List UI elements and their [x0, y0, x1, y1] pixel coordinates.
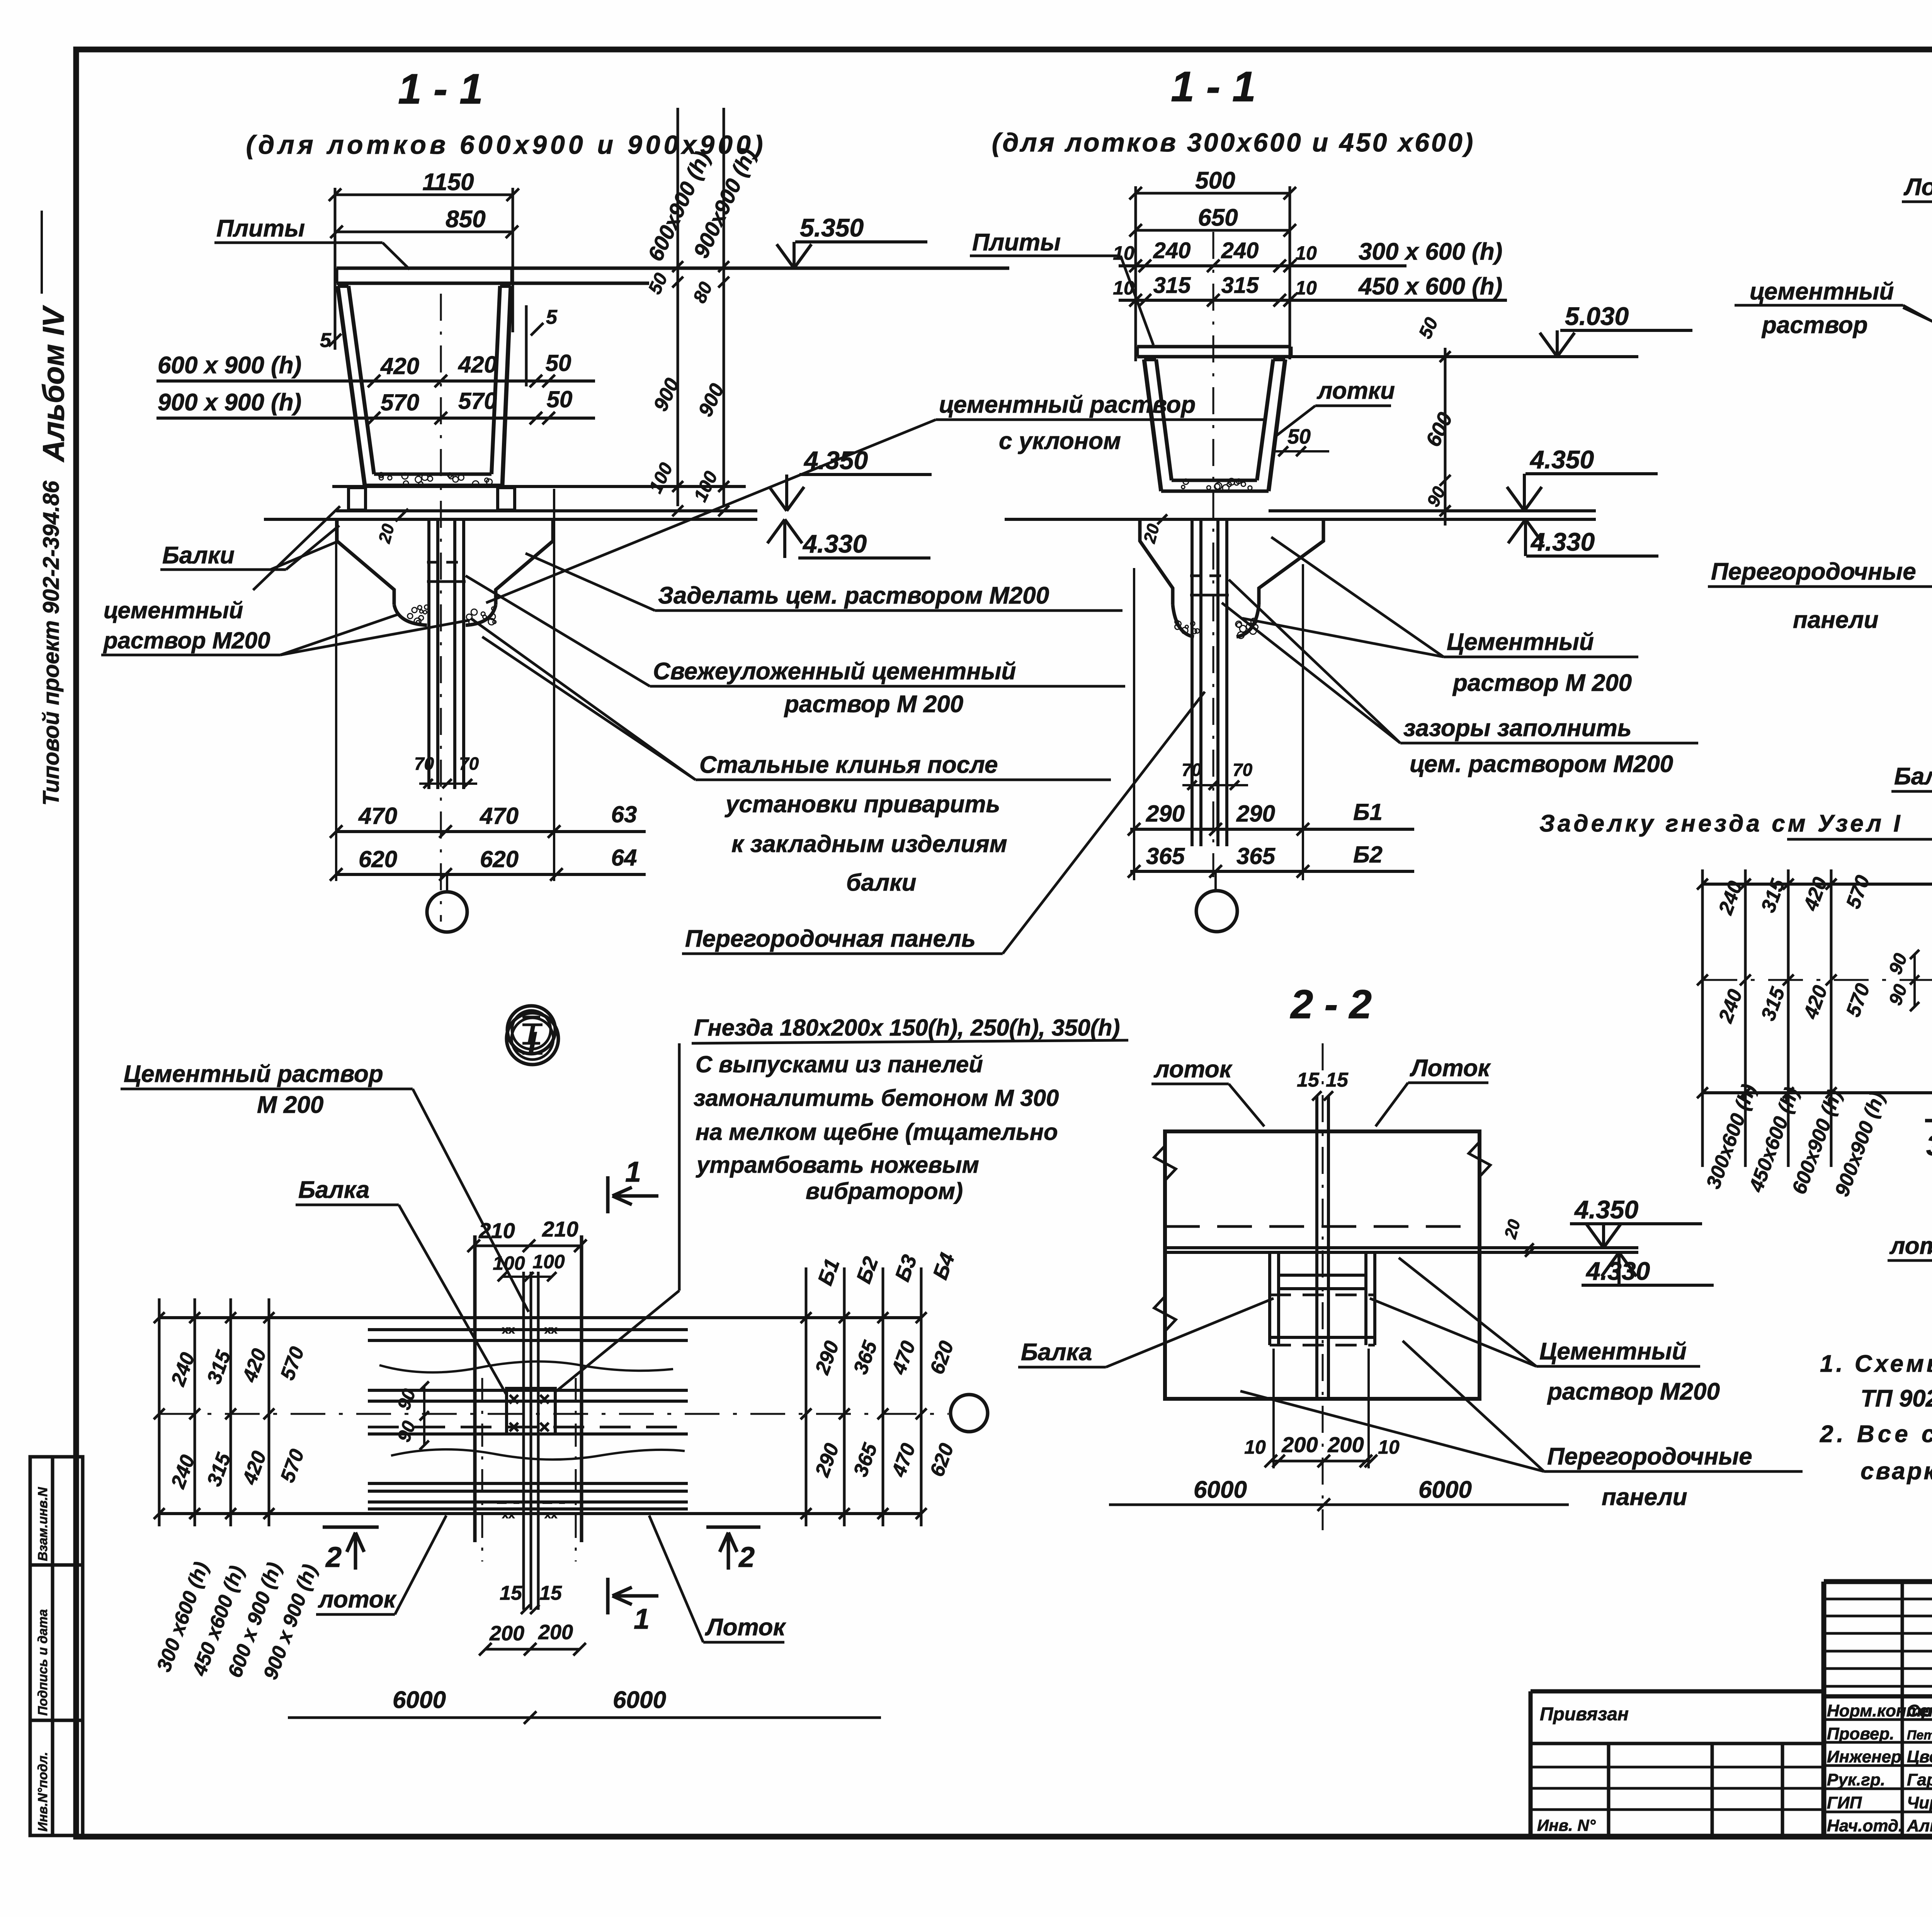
svg-text:раствор М 200: раствор М 200 [1452, 670, 1632, 696]
svg-text:Б1: Б1 [1353, 799, 1383, 825]
leaders cementny 2-2 [1399, 1258, 1536, 1366]
svg-text:1 - 1: 1 - 1 [1171, 63, 1256, 111]
plan left bands and joint [368, 1316, 688, 1319]
svg-text:100: 100 [532, 1251, 565, 1272]
lotok trough floor [374, 473, 492, 476]
lotok floor mortar dots [447, 473, 452, 478]
svg-text:1 - 1: 1 - 1 [398, 65, 483, 113]
svg-text:570: 570 [458, 388, 497, 414]
elevation mark 4.330 left [767, 519, 785, 543]
svg-text:раствор М200: раствор М200 [1547, 1378, 1720, 1405]
middle section centerline [1213, 232, 1214, 877]
svg-text:Нач.отд.: Нач.отд. [1827, 1817, 1903, 1835]
svg-text:к закладным изделиям: к закладным изделиям [731, 831, 1007, 857]
svg-text:64: 64 [611, 845, 637, 871]
title block signature rows [1824, 1718, 1932, 1721]
svg-text:4.350: 4.350 [1529, 445, 1594, 474]
svg-text:лотки: лотки [1316, 378, 1395, 404]
svg-text:М 200: М 200 [257, 1092, 323, 1118]
svg-text:панели: панели [1793, 607, 1878, 633]
node mark I plan left [507, 1006, 555, 1054]
svg-text:3: 3 [1926, 1129, 1932, 1162]
elevation 4.350 middle [1507, 487, 1524, 511]
svg-text:балки: балки [846, 869, 917, 896]
rotated dim 600 middle [1444, 348, 1447, 526]
svg-text:цементный: цементный [1750, 278, 1894, 305]
dim 6000 6000 plan right [1928, 1250, 1932, 1253]
bearing pads under lotok [349, 488, 366, 510]
dim row 365 365 B2 [1130, 870, 1414, 873]
middle lotok top and floor [1144, 357, 1156, 361]
svg-text:Цементный: Цементный [1539, 1338, 1687, 1365]
2-2 centerline [1322, 1043, 1324, 1530]
svg-text:6000: 6000 [613, 1687, 666, 1713]
svg-text:(для лотков 300х600 и 450 х600: (для лотков 300х600 и 450 х600) [992, 128, 1475, 157]
svg-text:установки приварить: установки приварить [724, 791, 1000, 818]
svg-text:50: 50 [1287, 425, 1311, 448]
svg-text:на мелком щебне (тщательно: на мелком щебне (тщательно [696, 1119, 1058, 1145]
svg-text:Лоток: Лоток [1410, 1055, 1491, 1082]
svg-text:Перегородочные: Перегородочные [1711, 558, 1916, 585]
svg-text:Типовой проект 902-2-394.86: Типовой проект 902-2-394.86 [39, 481, 64, 806]
svg-text:470: 470 [480, 803, 519, 829]
svg-text:Инв.N°подл.: Инв.N°подл. [36, 1752, 50, 1832]
svg-text:Балка: Балка [1021, 1339, 1092, 1366]
2-2 mortar bed lines [1165, 1246, 1638, 1249]
svg-text:С выпусками из панелей: С выпусками из панелей [696, 1051, 983, 1077]
axis circle right of plan left [951, 1395, 988, 1432]
svg-text:210: 210 [542, 1217, 578, 1241]
svg-text:2: 2 [325, 1541, 342, 1573]
lotok trough outer wall left [338, 286, 365, 485]
svg-text:(для лотков 600х900 и 900х900: (для лотков 600х900 и 900х900) [246, 130, 767, 160]
svg-text:Лоток: Лоток [1903, 174, 1932, 201]
svg-text:5.350: 5.350 [800, 213, 864, 242]
svg-text:420: 420 [458, 352, 497, 378]
svg-text:5.030: 5.030 [1565, 302, 1629, 330]
svg-text:цементный: цементный [104, 597, 243, 623]
middle lotok inner walls [1156, 359, 1172, 480]
section centerline left [440, 294, 442, 922]
axis circle middle section [1196, 891, 1237, 932]
svg-text:10: 10 [1244, 1436, 1266, 1458]
svg-text:1: 1 [634, 1603, 650, 1635]
level line 4.330 middle [1005, 518, 1596, 521]
dim 6000 6000 2-2 [1109, 1504, 1569, 1506]
svg-text:570: 570 [381, 390, 419, 415]
svg-text:Балка: Балка [1894, 763, 1932, 790]
svg-text:650: 650 [1198, 204, 1238, 231]
svg-text:1. Схемы расположения балок: 1. Схемы расположения балок, лотков, пли… [1820, 1351, 1932, 1377]
svg-text:Привязан: Привязан [1540, 1704, 1629, 1725]
svg-text:Заделать цем. раствором М200: Заделать цем. раствором М200 [658, 582, 1049, 609]
svg-text:900 х 900 (h): 900 х 900 (h) [158, 389, 301, 416]
svg-text:10: 10 [1113, 277, 1134, 299]
middle beam socket mortar [1175, 624, 1180, 629]
plate extension lines [334, 188, 337, 350]
2-2 beam notch [1268, 1252, 1271, 1345]
svg-text:Свежеуложенный цементный: Свежеуложенный цементный [653, 658, 1016, 685]
svg-text:Гнезда 180х200х 150(h), 250(h: Гнезда 180х200х 150(h), 250(h), 350(h) [694, 1015, 1120, 1041]
svg-text:Взам.инв.N: Взам.инв.N [36, 1487, 50, 1561]
svg-text:4.330: 4.330 [802, 529, 867, 558]
svg-text:15: 15 [500, 1582, 522, 1604]
svg-text:Провер.: Провер. [1827, 1725, 1894, 1744]
level line 4.350 left section [336, 509, 757, 512]
lotok trough inner wall left [349, 286, 374, 474]
svg-text:70: 70 [459, 754, 479, 774]
leaders zazory [1229, 580, 1400, 743]
section arrow 1 bottom plan left [606, 1578, 610, 1614]
svg-text:6000: 6000 [393, 1687, 446, 1713]
dim 500 middle plate [1136, 192, 1290, 195]
svg-text:Гарбуз: Гарбуз [1907, 1771, 1932, 1789]
socket bottom dashes [427, 561, 466, 564]
axis circle left section [427, 892, 467, 932]
lotok trough top edges [338, 284, 349, 288]
svg-text:Инв. N°: Инв. N° [1537, 1816, 1596, 1834]
svg-text:зазоры заполнить: зазоры заполнить [1403, 715, 1632, 742]
svg-text:2 - 2: 2 - 2 [1290, 982, 1372, 1027]
dim 90 90 plan left [423, 1385, 425, 1446]
svg-text:290: 290 [1146, 801, 1185, 827]
svg-text:6000: 6000 [1418, 1476, 1472, 1503]
section arrow 1 top plan left [606, 1176, 610, 1213]
svg-text:Заделку гнезда см Узел I: Заделку гнезда см Узел I [1539, 810, 1903, 837]
ticks on rotated dim columns [672, 261, 683, 272]
svg-text:70: 70 [414, 754, 434, 774]
svg-text:1150: 1150 [422, 169, 474, 196]
svg-text:70: 70 [1233, 760, 1253, 780]
svg-text:200: 200 [538, 1621, 573, 1644]
svg-text:600 х 900 (h): 600 х 900 (h) [158, 352, 301, 379]
svg-text:620: 620 [359, 846, 397, 872]
svg-text:с уклоном: с уклоном [999, 428, 1121, 454]
plan right long center lines [1702, 883, 1932, 886]
svg-text:4.330: 4.330 [1585, 1257, 1650, 1285]
beam socket mortar dots [423, 611, 427, 614]
elevation mark 4.350 left [769, 487, 787, 511]
svg-text:850: 850 [446, 206, 485, 233]
uzel I node mark [507, 1013, 558, 1065]
svg-text:Семенова: Семенова [1907, 1701, 1932, 1720]
svg-text:420: 420 [380, 353, 419, 379]
svg-text:1: 1 [625, 1156, 641, 1188]
svg-text:365: 365 [1146, 843, 1185, 869]
svg-text:5: 5 [320, 329, 332, 352]
svg-text:Цементный раствор: Цементный раствор [124, 1061, 383, 1087]
2-2 edge breaks [1154, 1146, 1176, 1180]
svg-text:лоток: лоток [318, 1586, 397, 1613]
level line 4.330 left section [264, 518, 757, 521]
middle panel stem [1190, 521, 1194, 846]
gnezda leader to plan left [678, 1221, 681, 1291]
beam body left haunch [337, 519, 394, 605]
svg-text:раствор М 200: раствор М 200 [784, 691, 963, 718]
2-2 hidden dashed [1165, 1225, 1480, 1228]
leaders cement mortar left [253, 506, 340, 590]
title block header grid [1824, 1598, 1932, 1601]
svg-text:Цементный: Цементный [1447, 629, 1594, 655]
svg-text:50: 50 [547, 386, 573, 412]
svg-text:Чирков: Чирков [1907, 1793, 1932, 1812]
dim 850 plate [337, 231, 512, 233]
svg-text:70: 70 [1182, 760, 1202, 780]
svg-text:Рук.гр.: Рук.гр. [1827, 1771, 1885, 1789]
leaders cementny middle [1271, 537, 1444, 657]
svg-text:620: 620 [480, 846, 519, 872]
middle ext verticals dim rows [1133, 568, 1135, 880]
svg-text:Цветкова: Цветкова [1907, 1747, 1932, 1766]
plate slab of section 1-1 left [337, 267, 1009, 270]
dim 6000 6000 plan left [288, 1716, 881, 1719]
svg-text:6000: 6000 [1194, 1476, 1247, 1503]
svg-text:200: 200 [489, 1622, 524, 1645]
svg-text:100: 100 [493, 1252, 525, 1274]
svg-text:хх: хх [544, 1323, 558, 1336]
svg-text:4.330: 4.330 [1530, 527, 1595, 556]
dim row 290 290 B1 [1130, 828, 1414, 831]
svg-text:Балка: Балка [298, 1177, 369, 1203]
svg-text:раствор: раствор [1761, 312, 1868, 338]
svg-text:раствор М200: раствор М200 [103, 628, 270, 653]
svg-text:сварку вести электродами Э4: сварку вести электродами Э42 ГОСТ 9467-7… [1861, 1458, 1932, 1485]
svg-text:Плиты: Плиты [216, 215, 305, 242]
gnezda note box edge [678, 1043, 681, 1222]
svg-text:300 х 600 (h): 300 х 600 (h) [1359, 238, 1502, 265]
2-2 block outline [1165, 1131, 1480, 1399]
left stamp table [30, 1457, 83, 1835]
elevation 5.030 middle [1290, 355, 1638, 358]
svg-text:4.350: 4.350 [1574, 1195, 1638, 1224]
right plan left dim columns 240-570 [1701, 869, 1704, 1167]
svg-text:вибратором): вибратором) [806, 1178, 963, 1204]
svg-text:450 х 600 (h): 450 х 600 (h) [1358, 273, 1502, 300]
dim row 620 620 64 [336, 873, 646, 876]
leaders peregorodochnye 2-2 [1403, 1341, 1544, 1471]
elevation mark 5.350 [777, 244, 794, 268]
rotated dim column 600x900 [677, 108, 679, 506]
leaders stalnye klinya [471, 618, 696, 780]
section mark 3 left [1925, 1119, 1932, 1123]
2-2 joint verticals [1315, 1096, 1318, 1399]
svg-text:10: 10 [1113, 242, 1134, 264]
svg-text:365: 365 [1236, 843, 1276, 869]
svg-text:63: 63 [611, 801, 637, 827]
svg-text:Балки: Балки [162, 542, 235, 569]
svg-text:цем. раствором М200: цем. раствором М200 [1410, 751, 1673, 777]
dim 10 200 200 10 2-2 [1271, 1460, 1371, 1463]
middle plate slab [1137, 345, 1291, 349]
svg-text:10: 10 [1295, 277, 1317, 299]
svg-text:50: 50 [546, 350, 571, 376]
svg-text:Перегородочная панель: Перегородочная панель [685, 925, 976, 952]
svg-text:10: 10 [1378, 1436, 1400, 1458]
svg-text:лоток: лоток [1889, 1233, 1932, 1259]
middle plate ext lines [1134, 186, 1137, 361]
lotok trough outer wall right [502, 286, 511, 485]
level line 4.350 middle [1269, 509, 1596, 512]
middle lotok outer walls [1144, 359, 1161, 491]
plan left long center lines [159, 1316, 921, 1319]
svg-text:замоналитить бетоном М 300: замоналитить бетоном М 300 [694, 1085, 1059, 1111]
svg-text:Подпись и дата: Подпись и дата [36, 1609, 50, 1716]
svg-text:Стальные клинья после: Стальные клинья после [699, 752, 998, 778]
lotok bottom level line [332, 485, 746, 488]
left plan left dim columns [158, 1298, 161, 1526]
svg-text:290: 290 [1236, 801, 1275, 827]
svg-text:240: 240 [1153, 238, 1191, 263]
svg-text:Плиты: Плиты [972, 229, 1061, 256]
dim 1150 plate [335, 194, 513, 196]
left plan right dim columns B1-B4 [805, 1267, 808, 1526]
svg-text:Альбом IV: Альбом IV [36, 305, 70, 463]
svg-text:315: 315 [1153, 273, 1191, 298]
left section extension verticals for dim rows [335, 521, 337, 881]
svg-text:5: 5 [546, 306, 558, 328]
svg-text:200: 200 [1327, 1432, 1364, 1457]
dim 650 middle plate [1136, 229, 1290, 232]
panel stem faces [427, 521, 430, 789]
title block outline [1824, 1579, 1932, 1584]
svg-text:Б2: Б2 [1353, 842, 1383, 867]
svg-text:утрамбовать ножевым: утрамбовать ножевым [696, 1152, 979, 1178]
elevation 4.350 2-2 [1586, 1224, 1604, 1248]
dim 90 90 plan right [1913, 954, 1916, 1007]
svg-text:Петропавловская: Петропавловская [1907, 1728, 1932, 1743]
elevation 4.330 middle [1508, 519, 1526, 543]
section mark 2 right [706, 1526, 760, 1529]
svg-text:хх: хх [502, 1323, 515, 1336]
svg-text:500: 500 [1195, 167, 1235, 194]
dim 100 100 plan left [502, 1276, 552, 1278]
beam body right haunch [496, 519, 553, 605]
lotok trough inner wall right [492, 286, 500, 474]
svg-text:Инженер: Инженер [1827, 1747, 1901, 1766]
dim row 470 470 63 [336, 830, 646, 833]
dim 200 200 plan left [485, 1648, 580, 1651]
svg-text:цементный раствор: цементный раствор [939, 391, 1196, 418]
svg-text:470: 470 [358, 803, 397, 829]
svg-text:15: 15 [1326, 1069, 1349, 1091]
dim 210 210 plan left [474, 1245, 580, 1247]
svg-text:2. Все сварные швы h=6мм .: 2. Все сварные швы h=6мм . [1820, 1421, 1932, 1448]
dim row 10 315 315 10 [1119, 299, 1507, 302]
svg-text:лоток: лоток [1153, 1056, 1233, 1083]
svg-text:15: 15 [1297, 1069, 1320, 1091]
svg-text:15: 15 [539, 1582, 562, 1604]
svg-text:Перегородочные: Перегородочные [1547, 1443, 1752, 1470]
middle beam haunches [1140, 519, 1173, 605]
svg-text:200: 200 [1281, 1432, 1318, 1457]
elevation 4.330 2-2 [1602, 1252, 1619, 1276]
svg-text:Лоток: Лоток [705, 1614, 786, 1641]
dim row 10 240 240 10 [1119, 264, 1406, 267]
svg-text:240: 240 [1221, 238, 1259, 263]
privyazan table [1531, 1689, 1824, 1694]
svg-text:ГИП: ГИП [1827, 1793, 1862, 1812]
svg-text:10: 10 [1295, 242, 1317, 264]
svg-text:Альтшуллер: Альтшуллер [1906, 1817, 1932, 1835]
svg-text:панели: панели [1602, 1484, 1687, 1510]
svg-text:2: 2 [738, 1541, 755, 1573]
rotated dim column 900x900 [723, 108, 725, 506]
svg-text:ТП 902-2-394.86 ал. III ,: ТП 902-2-394.86 ал. III , [1861, 1385, 1932, 1412]
svg-text:315: 315 [1221, 273, 1259, 298]
svg-text:210: 210 [478, 1218, 515, 1243]
section mark 2 left [323, 1526, 379, 1529]
